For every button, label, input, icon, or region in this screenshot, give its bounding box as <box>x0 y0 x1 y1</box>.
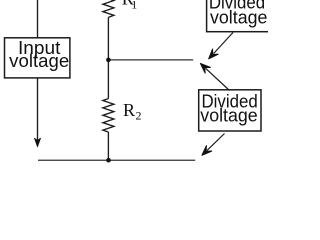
wire: middle vertical between R2 and bottom node <box>107 132 109 160</box>
svg-text:voltage: voltage <box>210 7 267 27</box>
wire: left vertical (segment below Input voltage box) <box>37 77 39 140</box>
pointer arrow from lower Divided voltage box up to tap node <box>201 64 230 91</box>
wire: left vertical (top segment, into Input voltage box) <box>37 0 39 38</box>
label R2 (value label) <box>123 100 142 123</box>
svg-text:R: R <box>123 100 135 120</box>
label R1 (value label, cropped at top edge) <box>122 0 138 12</box>
resistor R2 (zigzag) <box>103 99 114 132</box>
input voltage polarity arrowhead (down, on left wire) <box>35 138 41 147</box>
svg-text:voltage: voltage <box>200 106 257 126</box>
wire: middle vertical between R1 and tap node <box>107 17 109 60</box>
pointer arrow from upper Divided voltage box to tap node <box>209 33 233 59</box>
wire: divided-voltage tap (horizontal) <box>108 59 193 61</box>
svg-text:1: 1 <box>131 0 137 12</box>
resistor R1 (zigzag, cropped at top edge) <box>103 0 114 17</box>
wire: bottom rail (horizontal) <box>38 159 195 161</box>
pointer arrow from lower Divided voltage box to bottom rail <box>202 134 225 156</box>
wire: middle vertical between tap node and R2 <box>107 60 109 99</box>
label box: Divided voltage (upper, cropped at top and right) <box>207 0 269 32</box>
node: junction dot on bottom rail <box>106 158 111 163</box>
svg-text:voltage: voltage <box>9 51 69 71</box>
svg-text:2: 2 <box>136 108 142 122</box>
label box: Divided voltage (lower) <box>199 90 261 131</box>
node: junction dot between R1 and R2 (tap) <box>106 58 111 63</box>
label box: Input voltage <box>5 38 70 78</box>
